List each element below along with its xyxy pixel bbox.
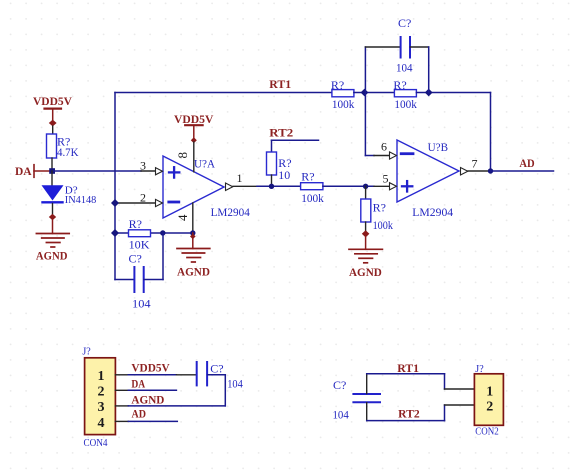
svg-text:AD: AD: [519, 156, 535, 170]
wire RT1 top row left segment: [115, 92, 332, 94]
svg-text:C?: C?: [210, 362, 223, 376]
svg-text:AGND: AGND: [177, 264, 210, 278]
capacitor C2 104 (top feedback): [365, 16, 428, 93]
pin 2 of U1A: [115, 190, 163, 206]
svg-text:CON4: CON4: [84, 437, 108, 449]
node F2 junction: [425, 89, 433, 97]
svg-text:U?B: U?B: [428, 140, 448, 154]
wire R1 to node DA: [51, 158, 53, 171]
node pin5 junction: [363, 184, 368, 189]
node pin2 junction: [111, 199, 119, 207]
power port VDD5V (above U1A): [174, 112, 214, 143]
svg-text:LM2904: LM2904: [211, 205, 250, 219]
svg-text:RT2: RT2: [269, 126, 293, 140]
wire R6 to pin5 node: [323, 185, 374, 187]
resistor R3 100k (top right): [393, 78, 417, 111]
node pin4 junction: [190, 230, 195, 235]
svg-text:100k: 100k: [373, 218, 393, 232]
pin 5 of U1B: [374, 171, 397, 190]
pin 6 of U1B: [374, 140, 397, 160]
svg-text:8: 8: [175, 152, 190, 159]
svg-text:104: 104: [132, 297, 151, 311]
svg-text:104: 104: [333, 408, 349, 422]
node DA junction: [49, 168, 55, 174]
svg-text:4: 4: [175, 214, 190, 221]
pin 2 of J1: [115, 389, 128, 391]
svg-text:RT2: RT2: [398, 406, 420, 420]
wire R5 feedback row: [115, 232, 193, 234]
pin 1 of J2: [445, 388, 475, 390]
node O1 junction: [269, 184, 274, 189]
svg-text:U?A: U?A: [194, 156, 215, 170]
node AD junction: [488, 168, 493, 173]
wire AD row: [128, 420, 177, 422]
capacitor C3 104 (decoupling): [176, 362, 242, 406]
svg-text:5: 5: [383, 171, 389, 185]
node R5 left junction: [111, 229, 119, 237]
node F1 junction: [361, 89, 369, 97]
pin 7 of U1B (output): [461, 156, 491, 175]
ground AGND (left): [36, 214, 69, 263]
wire AD: [491, 170, 554, 172]
svg-text:IN4148: IN4148: [65, 195, 97, 206]
svg-text:4: 4: [98, 416, 105, 431]
svg-text:10: 10: [278, 168, 290, 182]
pin 3 of U1A: [140, 158, 163, 175]
svg-text:2: 2: [486, 400, 493, 415]
svg-text:DA: DA: [15, 164, 32, 178]
resistor R7 100k (to ground): [361, 186, 393, 232]
wire DA to pin3: [52, 170, 141, 172]
resistor R1 4.7K: [47, 134, 79, 159]
svg-text:AD: AD: [132, 406, 147, 420]
svg-text:7: 7: [472, 156, 478, 170]
resistor R4 10: [267, 152, 292, 182]
svg-text:AGND: AGND: [36, 249, 68, 263]
svg-text:R?: R?: [301, 170, 314, 184]
resistor R5 10K: [129, 217, 151, 252]
wire RT2 row (bottom): [367, 405, 445, 421]
svg-text:100k: 100k: [301, 191, 324, 205]
capacitor C4 104 (RT filter): [333, 374, 381, 422]
svg-text:C?: C?: [333, 378, 346, 392]
pin 1 of U1A (output): [226, 171, 258, 190]
power port VDD5V (left): [33, 94, 72, 127]
resistor R6 100k (middle): [301, 170, 324, 206]
wire RT2 stub: [272, 139, 319, 141]
svg-text:1: 1: [98, 369, 105, 384]
wire R3 to right vertical: [416, 92, 490, 94]
svg-text:AGND: AGND: [349, 265, 382, 279]
svg-text:VDD5V: VDD5V: [33, 94, 72, 108]
op-amp U1A LM2904: [163, 156, 250, 219]
svg-text:R?: R?: [129, 217, 142, 231]
wire DA row: [128, 389, 176, 391]
svg-text:J?: J?: [82, 347, 91, 358]
ground AGND (right): [349, 230, 382, 279]
svg-text:CON2: CON2: [475, 425, 498, 437]
svg-text:6: 6: [381, 140, 387, 154]
wire RT2 down to R4: [271, 140, 273, 152]
pin 2 of J2: [445, 404, 475, 406]
wire U1A output row: [257, 185, 301, 187]
svg-text:100k: 100k: [332, 97, 355, 111]
wire RT1 row (bottom): [367, 374, 445, 389]
port DA: [15, 164, 50, 178]
wire R2 to node F1: [354, 92, 395, 94]
svg-text:LM2904: LM2904: [412, 205, 453, 219]
capacitor C1 104 (U1A feedback): [115, 233, 163, 311]
pin 4 of U1A: [175, 203, 193, 233]
svg-text:R?: R?: [331, 78, 344, 92]
node R5 right junction: [160, 230, 165, 235]
resistor R2 100k (top left): [331, 78, 355, 111]
diode D1 IN4148: [42, 185, 97, 207]
svg-text:C?: C?: [129, 252, 142, 266]
connector J2 CON2: [474, 364, 503, 438]
wire R4 to node O1: [271, 175, 273, 186]
svg-text:104: 104: [396, 61, 413, 75]
ground AGND (middle): [177, 233, 210, 278]
pin 3 of J1: [115, 405, 128, 407]
svg-text:3: 3: [140, 158, 146, 172]
svg-text:100k: 100k: [394, 97, 417, 111]
svg-text:1: 1: [486, 385, 493, 400]
wire diode to AGND: [52, 204, 54, 217]
svg-text:R?: R?: [373, 201, 386, 215]
svg-text:RT1: RT1: [397, 361, 419, 375]
wire left feedback vertical: [114, 93, 116, 280]
svg-text:C?: C?: [398, 16, 411, 30]
svg-text:DA: DA: [131, 376, 145, 390]
svg-text:VDD5V: VDD5V: [174, 112, 214, 126]
wire AGND row: [128, 405, 225, 407]
svg-text:2: 2: [98, 385, 105, 400]
wire DA node to diode: [51, 171, 53, 186]
wire VDD5V row: [128, 374, 176, 376]
svg-text:AGND: AGND: [131, 392, 164, 406]
svg-text:2: 2: [140, 190, 146, 204]
svg-text:10K: 10K: [129, 238, 150, 252]
connector J1 CON4: [82, 347, 115, 450]
svg-text:3: 3: [98, 400, 105, 415]
svg-text:VDD5V: VDD5V: [131, 360, 170, 374]
wire pin6 branch: [365, 93, 374, 156]
wire VDD5V to R1: [52, 126, 54, 134]
svg-text:RT1: RT1: [269, 77, 291, 91]
op-amp U1B LM2904: [397, 140, 459, 219]
svg-text:4.7K: 4.7K: [57, 145, 79, 159]
wire right feedback vertical: [490, 93, 492, 172]
pin 4 of J1: [115, 420, 128, 422]
svg-text:R?: R?: [393, 78, 406, 92]
svg-text:104: 104: [227, 377, 243, 391]
svg-text:1: 1: [237, 171, 243, 185]
pin 1 of J1: [115, 374, 128, 376]
pin 8 of U1A: [175, 142, 194, 172]
